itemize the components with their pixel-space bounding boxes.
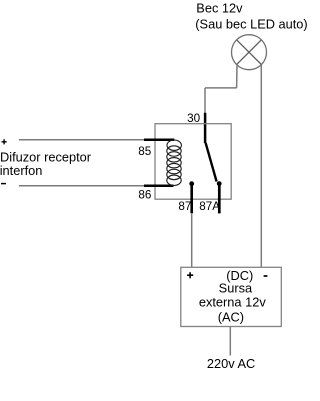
lamp L1 cross: [237, 40, 262, 65]
wire - from difuzor: [19, 185, 145, 187]
terminal 87A stub: [218, 184, 221, 214]
terminal 85 thick lead: [144, 139, 174, 142]
switch arm 30 to 87A: [206, 143, 217, 182]
svg-text:(Sau bec LED auto): (Sau bec LED auto): [195, 16, 307, 31]
node dot 87A: [217, 181, 222, 186]
svg-text:220v AC: 220v AC: [207, 356, 255, 371]
wire vertical down to terminal 30: [204, 88, 206, 113]
lamp L1 circle: [232, 35, 267, 70]
svg-text:87A: 87A: [199, 200, 220, 213]
wire horizontal lamp to node30: [205, 87, 237, 89]
minus sign difuzor: [1, 183, 6, 185]
minus sign supply: [264, 275, 268, 277]
svg-text:86: 86: [138, 189, 151, 202]
wire + from difuzor: [19, 139, 145, 141]
svg-text:Bec 12v: Bec 12v: [196, 1, 243, 16]
terminal 86 thick lead: [144, 184, 174, 187]
wire supply to 220v: [229, 327, 231, 356]
svg-text:externa 12v: externa 12v: [199, 295, 266, 310]
relay coil: [167, 140, 182, 186]
svg-text:Sursa: Sursa: [219, 280, 253, 295]
wire lamp right down to supply -: [260, 65, 262, 268]
terminal 87 stub: [190, 184, 193, 214]
plus sign difuzor: [2, 139, 7, 144]
svg-text:interfon: interfon: [0, 163, 42, 178]
wire lamp left down: [236, 66, 238, 88]
terminal 30 stub: [204, 113, 207, 143]
svg-text:(AC): (AC): [218, 310, 244, 325]
node dot 87: [189, 181, 194, 186]
svg-text:85: 85: [138, 145, 152, 158]
relay box U1: [155, 124, 231, 200]
plus sign supply: [187, 272, 193, 278]
wire 87 to supply +: [191, 213, 193, 267]
supply box: [181, 267, 281, 326]
svg-text:87: 87: [178, 200, 191, 213]
